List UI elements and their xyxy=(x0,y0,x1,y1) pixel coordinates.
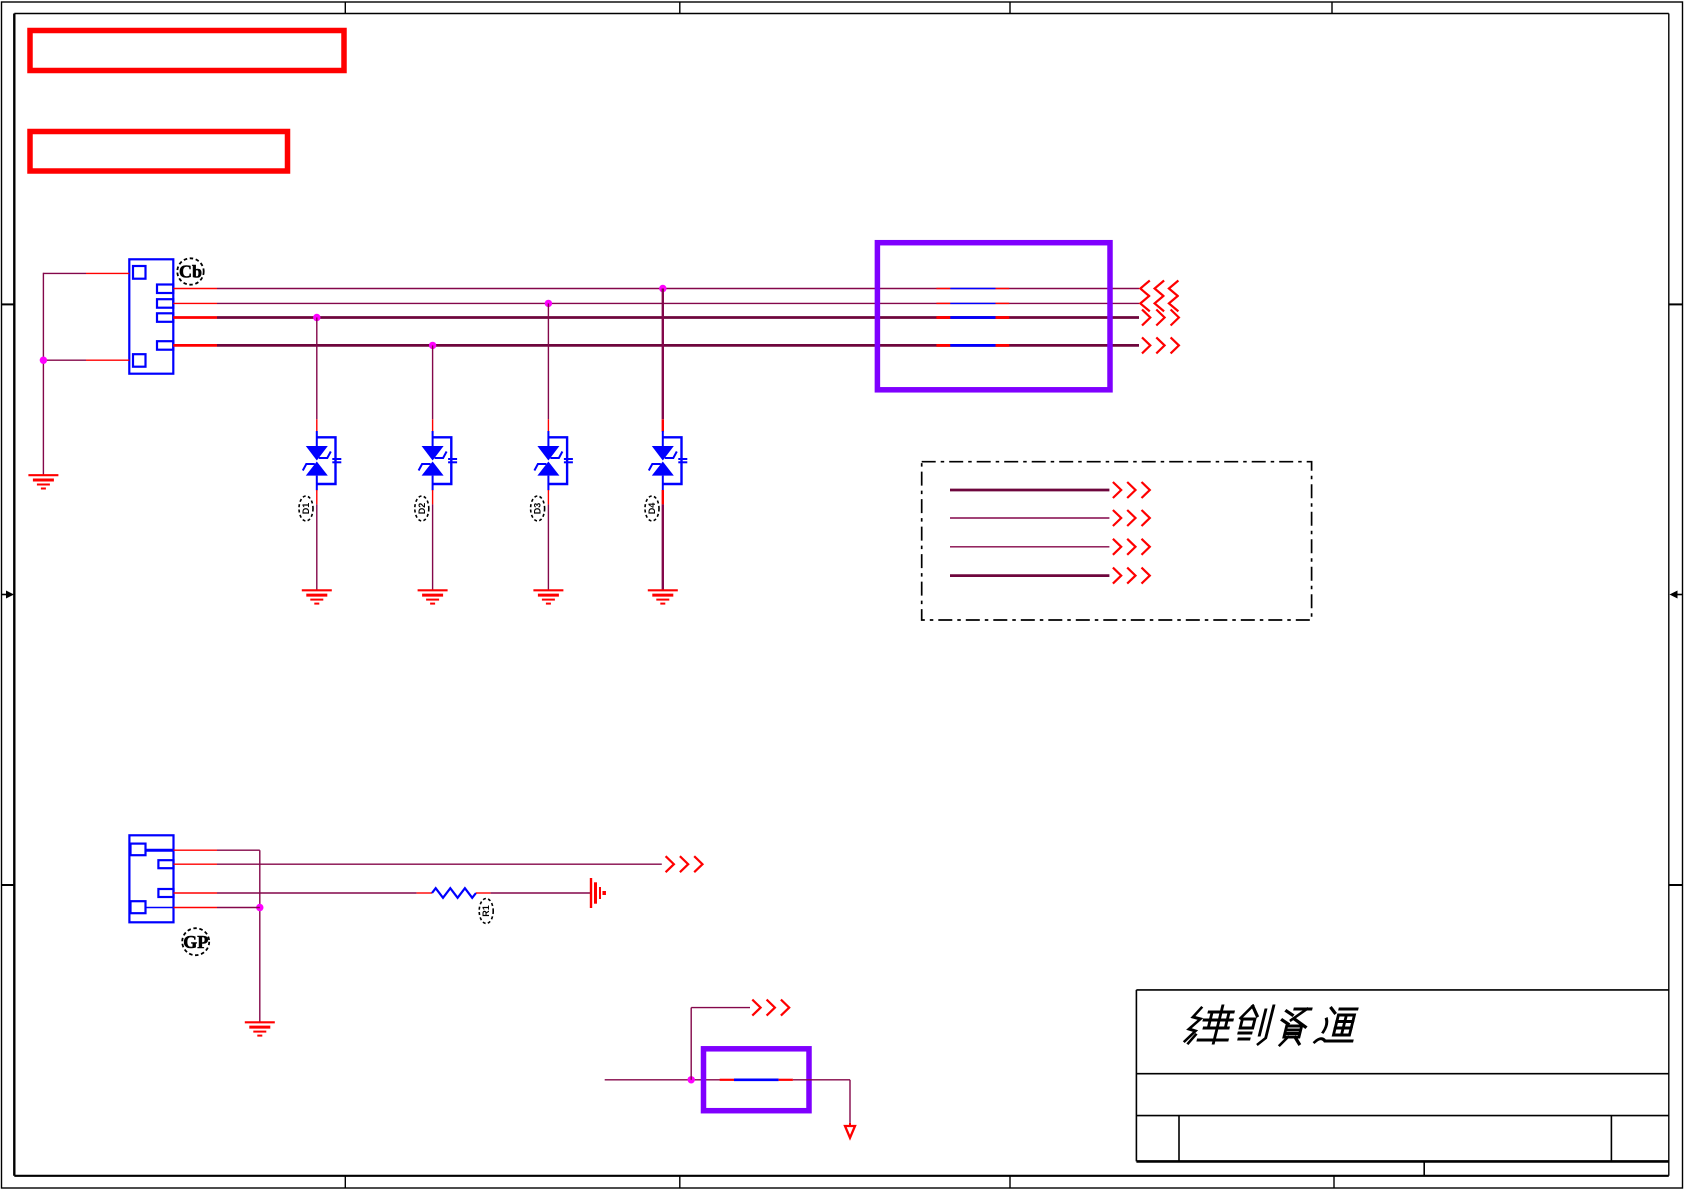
wire D1 vertical upper xyxy=(316,318,318,420)
wire option net 2 xyxy=(950,517,1109,519)
wire row C red stub xyxy=(173,316,217,319)
ground D1 xyxy=(302,590,332,603)
TVS diode D3 xyxy=(534,431,573,490)
wire D3 vertical upper xyxy=(547,303,549,419)
logo text Wistron (CJK) xyxy=(1184,1006,1361,1045)
port option net 1 output xyxy=(1113,482,1150,498)
junction left loop xyxy=(40,357,47,364)
wire row A red stub xyxy=(173,288,217,290)
wire D2 vertical upper xyxy=(432,345,434,419)
wire bottom branch vertical xyxy=(690,1008,692,1080)
wire CN2 row4 xyxy=(217,907,260,909)
U1 inline segment row C xyxy=(936,316,1009,319)
wire D2 red lower xyxy=(432,490,434,504)
wire CN1 pin1 to left xyxy=(43,272,129,274)
port row C output xyxy=(1142,310,1179,326)
svg-text:Cb: Cb xyxy=(179,262,202,282)
connector CN2 body xyxy=(129,835,173,922)
label D3 balloon xyxy=(531,496,545,521)
border center arrow left xyxy=(1,591,14,599)
module box U2 xyxy=(704,1049,810,1111)
wire D1 red lower xyxy=(316,490,318,504)
wire bottom net down xyxy=(849,1080,851,1123)
port CN2 row2 output xyxy=(666,856,703,872)
TVS diode D1 xyxy=(303,431,342,490)
wire CN1 pin6 to left xyxy=(43,359,129,361)
port row D output xyxy=(1142,337,1179,353)
TVS diode D2 xyxy=(419,431,458,490)
connector CN1 pin 5 xyxy=(157,341,173,350)
wire D4 red lower xyxy=(662,490,664,504)
border zone ticks left xyxy=(1,304,14,885)
label R1 balloon xyxy=(479,899,493,924)
wire D1 vertical lower xyxy=(316,504,318,590)
svg-text:R1: R1 xyxy=(481,905,491,917)
wire row B xyxy=(217,302,1139,304)
wire D2 vertical lower xyxy=(432,504,434,590)
ECN box 2 xyxy=(30,132,288,172)
wire option net 1 xyxy=(950,489,1109,492)
border center arrow right xyxy=(1670,591,1683,599)
ground D2 xyxy=(418,590,448,603)
connector CN1 pin 4 xyxy=(157,313,173,322)
wire option net 3 xyxy=(950,546,1109,548)
wire row D xyxy=(217,344,1139,347)
wire CN2 row1 xyxy=(217,849,260,851)
connector CN1 pin 2 xyxy=(157,285,173,294)
ground D4 xyxy=(648,590,678,603)
wire CN2 row2 red stub xyxy=(174,863,218,865)
ECN box 1 xyxy=(30,31,344,71)
U2 inline segment xyxy=(720,1079,793,1081)
connector CN2 pin 2 xyxy=(158,860,173,868)
wire R1 left red stub xyxy=(417,892,432,894)
junction row B / D3 xyxy=(545,300,552,307)
connector CN2 pin 3 xyxy=(158,889,173,897)
U1 inline segment row D xyxy=(936,344,1009,347)
wire CN2 gnd vertical xyxy=(259,850,261,1022)
wire arrow red stub xyxy=(849,1123,851,1126)
wire D4 vertical lower xyxy=(662,504,664,590)
port bottom branch output xyxy=(752,1000,789,1016)
junction bottom net xyxy=(688,1076,695,1083)
wire bottom net left xyxy=(605,1079,721,1081)
connector CN1 pin 3 xyxy=(157,299,173,308)
dash-dot option box xyxy=(922,462,1312,620)
wire CN2 row1 red stub xyxy=(174,849,218,851)
junction CN2 pin4 net xyxy=(256,904,263,911)
wire R1 red stub xyxy=(476,892,491,894)
wire CN2 row3 xyxy=(217,892,417,894)
wire bottom branch horizontal xyxy=(691,1007,750,1009)
wire D4 vertical upper xyxy=(662,289,664,420)
junction row C / D1 xyxy=(313,314,320,321)
wire row A xyxy=(217,288,1139,290)
junction row D / D2 xyxy=(429,342,436,349)
U1 inline segment row B xyxy=(936,302,1009,304)
wire row C xyxy=(217,316,1139,319)
svg-text:GP: GP xyxy=(183,932,208,952)
module box U1 xyxy=(877,243,1110,390)
wire D2 red upper xyxy=(432,419,434,431)
ground R1 (rotated) xyxy=(591,878,604,908)
label D4 balloon xyxy=(645,496,659,521)
svg-text:D3: D3 xyxy=(533,503,543,515)
label D2 balloon xyxy=(415,496,429,521)
connector CN1 body xyxy=(129,259,173,373)
port row B input xyxy=(1140,295,1178,311)
port option net 3 output xyxy=(1113,539,1150,555)
svg-text:D4: D4 xyxy=(647,503,657,515)
border zone ticks bottom xyxy=(345,1176,1334,1188)
label D1 balloon xyxy=(299,496,313,521)
port option net 2 output xyxy=(1113,510,1150,526)
svg-text:D1: D1 xyxy=(301,503,311,515)
port row A input xyxy=(1140,281,1178,297)
wire R1 to ground xyxy=(491,892,591,894)
label GP balloon xyxy=(182,928,209,955)
wire CN2 row3 red stub xyxy=(174,892,218,894)
border zone ticks right xyxy=(1669,304,1683,885)
wire bottom net right xyxy=(793,1079,850,1081)
wire row B red stub xyxy=(173,302,217,304)
wire left vertical xyxy=(42,273,44,476)
port option net 4 output xyxy=(1113,568,1150,584)
U1 inline segment row A xyxy=(936,288,1009,290)
wire D3 vertical lower xyxy=(547,504,549,590)
label Cb balloon xyxy=(177,258,203,284)
arrow terminator xyxy=(845,1126,855,1138)
junction row A / D4 xyxy=(659,285,666,292)
wire D3 red upper xyxy=(547,419,549,431)
title block frame xyxy=(1136,990,1668,1176)
wire CN2 row4 red stub xyxy=(174,907,218,909)
ground D3 xyxy=(533,590,563,603)
wire D1 red upper xyxy=(316,419,318,431)
wire D4 red upper xyxy=(662,419,664,431)
wire CN2 row2 xyxy=(217,863,662,865)
ground CN2 xyxy=(245,1022,275,1035)
wire D3 red lower xyxy=(547,490,549,504)
border zone ticks top xyxy=(345,2,1332,14)
svg-text:D2: D2 xyxy=(417,503,427,515)
TVS diode D4 xyxy=(649,431,688,490)
wire option net 4 xyxy=(950,574,1109,577)
ground left xyxy=(28,475,58,488)
wire row D red stub xyxy=(173,344,217,347)
resistor R1 xyxy=(432,888,476,898)
